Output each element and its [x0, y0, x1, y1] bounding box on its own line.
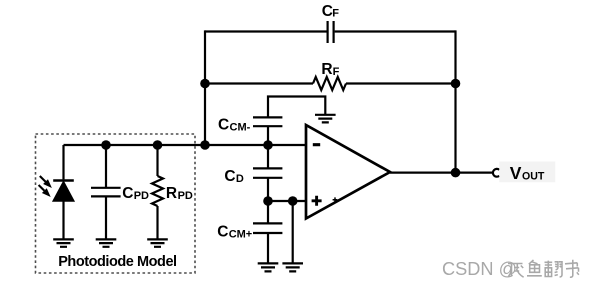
node junction RF-right	[451, 79, 461, 89]
capacitor C_F	[328, 21, 334, 43]
svg-text:C: C	[218, 116, 229, 133]
photodiode model dashed box	[36, 134, 196, 273]
output terminal circle	[493, 169, 499, 177]
photodiode D1 body	[53, 182, 74, 201]
photodiode D1 bottom wire	[62, 201, 64, 239]
ground (R_PD)	[147, 239, 168, 246]
capacitor C_CM+	[253, 223, 282, 233]
wire RF branch	[205, 82, 456, 84]
svg-text:CM-: CM-	[230, 121, 251, 133]
svg-text:PD: PD	[134, 190, 149, 202]
photodiode D1 top wire	[62, 145, 64, 179]
svg-text:D: D	[236, 173, 244, 185]
wire CCM+ top	[267, 201, 269, 223]
node junction RF-left	[200, 79, 210, 89]
node junction noninverting ground leg	[288, 196, 298, 206]
resistor R_F	[313, 77, 346, 90]
wire noninverting input net	[268, 200, 306, 202]
photodiode D1 cathode bar	[53, 179, 74, 182]
svg-text:V: V	[510, 163, 522, 183]
svg-text:C: C	[122, 185, 133, 202]
capacitor C_D	[253, 168, 282, 177]
capacitor C_CM-	[253, 117, 282, 126]
wire CCM- bottom to inverting node	[267, 126, 269, 145]
resistor R_PD bottom wire	[156, 206, 158, 239]
pin label minus (inverting input)	[313, 143, 320, 146]
watermark CJK glyph shu	[565, 260, 579, 277]
ground (photodiode)	[53, 239, 74, 246]
svg-text:C: C	[224, 168, 235, 185]
wire CD bottom to noninverting node	[267, 178, 269, 201]
wire noninverting to ground	[292, 201, 294, 263]
ground (noninverting)	[282, 263, 303, 271]
label background VOUT	[499, 162, 555, 183]
ground (C_PD)	[96, 239, 117, 246]
light arrow 2	[39, 185, 45, 191]
wire left vertical from CF/RF to inverting node	[204, 30, 206, 145]
wire top feedback branch (CF)	[205, 30, 456, 32]
wire CCM+ bottom to ground	[267, 233, 269, 263]
wire output net	[390, 172, 493, 174]
svg-text:R: R	[321, 61, 332, 78]
node junction photodiode/CPD	[101, 140, 111, 150]
svg-text:CSDN @: CSDN @	[442, 259, 517, 279]
svg-text:CM+: CM+	[229, 229, 253, 241]
capacitor C_PD bottom wire	[105, 196, 107, 239]
wire right vertical from CF down to output	[454, 30, 456, 172]
svg-text:R: R	[166, 185, 177, 202]
light arrow 1	[40, 176, 46, 182]
svg-text:F: F	[332, 8, 339, 20]
watermark CJK glyph fan	[545, 261, 563, 277]
resistor R_PD top wire	[156, 145, 158, 176]
capacitor C_PD	[91, 188, 121, 197]
wire CCM- to ground	[268, 97, 325, 118]
wire CD top	[267, 145, 269, 168]
svg-text:C: C	[217, 224, 228, 241]
node junction output-feedback	[451, 168, 461, 178]
pin label small plus	[333, 197, 338, 202]
svg-text:OUT: OUT	[522, 171, 545, 183]
ground (CCM+)	[258, 263, 279, 271]
capacitor C_PD top wire	[105, 145, 107, 188]
node junction CD/CCM+	[263, 196, 273, 206]
node junction RPD	[153, 140, 163, 150]
svg-text:F: F	[333, 66, 340, 78]
pin label plus (noninverting input)	[312, 196, 322, 206]
wire inverting input net	[64, 144, 306, 146]
ground (CCM- return)	[315, 115, 336, 123]
node junction CCM- chain	[263, 140, 273, 150]
node junction feedback-inverting	[200, 140, 210, 150]
watermark CJK glyph yu	[527, 260, 542, 276]
resistor R_PD	[152, 176, 163, 206]
svg-text:PD: PD	[178, 190, 193, 202]
watermark CJK glyph xian	[508, 264, 524, 278]
op-amp U1	[306, 125, 390, 219]
svg-text:Photodiode Model: Photodiode Model	[58, 254, 176, 270]
